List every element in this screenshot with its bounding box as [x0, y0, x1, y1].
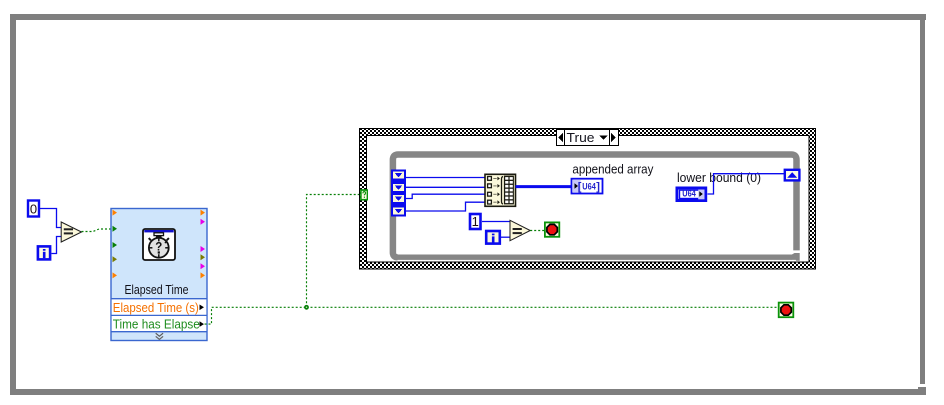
- svg-text:Time has Elapse: Time has Elapse: [113, 316, 200, 331]
- iteration terminal i (case): [486, 231, 500, 244]
- wire i to equals: [52, 237, 62, 254]
- svg-text:[: [: [578, 181, 582, 193]
- stop button terminal (right): [779, 303, 794, 318]
- while loop border: [393, 155, 800, 261]
- svg-text:U64: U64: [682, 189, 696, 199]
- equal? comparison (case): [510, 220, 530, 240]
- wire lower bound to right shift register: [708, 174, 785, 194]
- wire junction to right stop terminal: [307, 306, 778, 308]
- express VI left arrows: [113, 210, 118, 279]
- build array node: [485, 174, 516, 206]
- wire shift register 3 to build array: [406, 194, 485, 198]
- wire junction dot: [304, 305, 309, 310]
- wire equals to Elapsed Time (boolean): [82, 229, 111, 232]
- svg-text:1: 1: [472, 214, 479, 229]
- constant 0: [28, 201, 39, 217]
- lower bound control: [677, 188, 706, 201]
- equal? comparison (left): [61, 222, 81, 242]
- wire 1 to equals: [482, 221, 510, 223]
- Elapsed Time express VI: [111, 209, 207, 341]
- svg-text:appended array: appended array: [572, 162, 653, 177]
- svg-text:True: True: [567, 130, 595, 145]
- wire junction to case selector: [307, 195, 361, 308]
- svg-text:lower bound (0): lower bound (0): [677, 170, 761, 185]
- svg-text:]: ]: [596, 181, 600, 193]
- wire shift register 1 to build array: [406, 177, 485, 179]
- selector tunnel ?: [360, 189, 368, 200]
- wire shift register 2 to build array: [406, 186, 485, 188]
- iteration terminal i (left): [38, 246, 50, 259]
- svg-text:Elapsed Time (s): Elapsed Time (s): [113, 300, 199, 315]
- Elapsed Time icon: [143, 229, 175, 260]
- shift registers left: [391, 170, 406, 217]
- wire equals to stop button (case): [530, 230, 545, 232]
- svg-text:0: 0: [30, 202, 37, 217]
- appended array indicator: [572, 179, 603, 194]
- svg-text:Elapsed Time: Elapsed Time: [125, 282, 189, 297]
- wire Time has Elapsed to junction: [205, 307, 307, 324]
- wire 0 to equals: [40, 209, 61, 228]
- u64 array wire (thick) to appended array: [516, 185, 572, 188]
- wire i to equals (case): [501, 236, 510, 238]
- case structure border: [360, 129, 816, 270]
- case selector label True: [557, 130, 619, 146]
- stop button terminal (case): [545, 222, 559, 236]
- svg-text:U64: U64: [582, 181, 596, 191]
- shift register right (up arrow): [785, 170, 800, 181]
- express VI right arrows: [201, 210, 206, 279]
- wire shift register 4 to build array: [406, 202, 485, 211]
- constant 1: [470, 214, 481, 229]
